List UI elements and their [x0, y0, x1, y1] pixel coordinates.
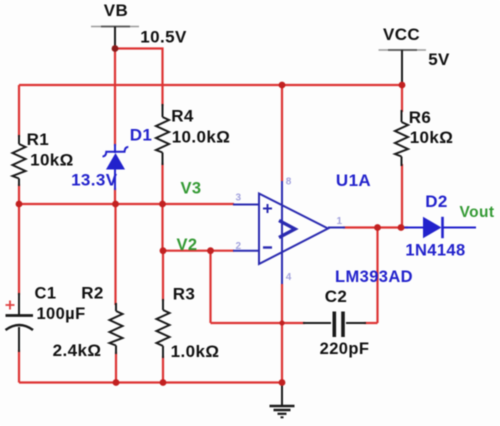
- node output-R6: [398, 224, 405, 231]
- wire V2 to R3: [162, 251, 164, 301]
- resistor R3: [157, 299, 170, 358]
- svg-text:10kΩ: 10kΩ: [410, 128, 454, 147]
- node V3-D1: [112, 201, 119, 208]
- op-amp U1A: [259, 181, 328, 284]
- svg-text:C2: C2: [325, 287, 348, 306]
- wire VB to R4 top: [115, 49, 163, 107]
- svg-text:C1: C1: [35, 285, 57, 303]
- wire R4 bottom to V3: [161, 163, 163, 204]
- svg-text:LM393AD: LM393AD: [335, 268, 413, 286]
- svg-text:1N4148: 1N4148: [405, 242, 465, 260]
- node V2-C2branch: [207, 247, 214, 254]
- wire top rail y=85: [19, 84, 402, 86]
- wire C2 right to riser: [364, 322, 378, 324]
- svg-text:2: 2: [236, 241, 242, 252]
- wire V3 line: [19, 203, 234, 205]
- svg-text:R1: R1: [27, 130, 50, 149]
- wire R6 bottom to output: [401, 164, 403, 228]
- svg-text:U1A: U1A: [336, 171, 371, 190]
- node bottom-R2: [113, 379, 120, 386]
- wire VB junction to D1: [114, 49, 116, 147]
- resistor R4: [156, 104, 169, 165]
- node V3-R4: [159, 201, 166, 208]
- resistor R2: [110, 303, 123, 354]
- svg-text:R2: R2: [81, 284, 104, 303]
- wire left vertical x=19 R1 to V3: [18, 184, 20, 204]
- svg-text:220pF: 220pF: [320, 340, 370, 358]
- wire R3 to bottom: [162, 356, 164, 383]
- diode D2: [403, 217, 476, 238]
- node bottom-ground: [279, 379, 286, 386]
- wire op-amp -input lead (blue): [233, 250, 259, 252]
- node VB junction: [112, 45, 119, 52]
- node C2line-ground crossing: [279, 320, 284, 325]
- svg-text:D1: D1: [130, 126, 153, 145]
- svg-text:8: 8: [286, 177, 292, 188]
- VCC power bar: [379, 50, 427, 85]
- wire V2 line: [163, 250, 234, 252]
- wire V3 to V2 x=162.5: [161, 204, 163, 251]
- node output-C2: [374, 224, 381, 231]
- wire left vertical x=19 V3 to C1: [18, 204, 20, 295]
- wire op-amp output lead (blue): [328, 227, 345, 229]
- svg-text:D2: D2: [425, 192, 448, 211]
- wire op-amp +input lead (blue): [233, 204, 259, 206]
- svg-text:4: 4: [286, 272, 292, 283]
- svg-text:100µF: 100µF: [36, 305, 85, 323]
- svg-text:1: 1: [337, 216, 343, 227]
- VB power bar: [91, 27, 139, 49]
- wire V2 down to C2 line: [209, 251, 211, 323]
- ground: [270, 383, 295, 418]
- svg-text:10.5V: 10.5V: [140, 28, 187, 47]
- wire D1 to V3: [114, 188, 116, 204]
- node V3-R1: [16, 201, 23, 208]
- svg-text:Vout: Vout: [460, 204, 495, 221]
- svg-text:1.0kΩ: 1.0kΩ: [171, 342, 220, 361]
- svg-text:V3: V3: [181, 180, 202, 198]
- svg-text:5V: 5V: [428, 50, 450, 69]
- svg-text:R3: R3: [173, 285, 196, 304]
- svg-text:10kΩ: 10kΩ: [30, 151, 74, 170]
- node VCC junction: [399, 82, 406, 89]
- node bottom-R3: [160, 379, 167, 386]
- wire left vertical x=19 C1 to bottom: [18, 350, 20, 383]
- wire R2 to bottom: [115, 352, 117, 383]
- node V2-R3: [160, 247, 167, 254]
- svg-text:VCC: VCC: [383, 25, 420, 44]
- svg-text:3: 3: [236, 193, 242, 204]
- wire VCC rail down x=402: [401, 85, 403, 112]
- wire left vertical x=19 upper (to R1): [18, 85, 20, 137]
- svg-text:2.4kΩ: 2.4kΩ: [53, 341, 102, 360]
- wire C2 riser up to output: [376, 228, 378, 324]
- capacitor C1: [6, 293, 34, 352]
- capacitor C2: [303, 312, 366, 338]
- wire output red segment: [343, 226, 408, 228]
- svg-text:V2: V2: [177, 236, 198, 254]
- resistor R6: [395, 110, 408, 166]
- node op-amp power tap: [279, 82, 286, 89]
- svg-text:R6: R6: [409, 108, 432, 127]
- wire C2 line left: [211, 322, 306, 324]
- svg-text:VB: VB: [104, 1, 128, 20]
- zener diode D1: [103, 144, 129, 190]
- wire op-amp ground x=282: [281, 284, 283, 383]
- wire V3 to R2: [114, 204, 116, 305]
- resistor R1: [13, 135, 26, 186]
- wire bottom rail y=382.5: [19, 381, 282, 383]
- svg-text:10.0kΩ: 10.0kΩ: [172, 128, 231, 147]
- wire op-amp power top x=282: [281, 85, 283, 181]
- svg-text:R4: R4: [171, 107, 194, 126]
- svg-text:13.3V: 13.3V: [71, 171, 118, 190]
